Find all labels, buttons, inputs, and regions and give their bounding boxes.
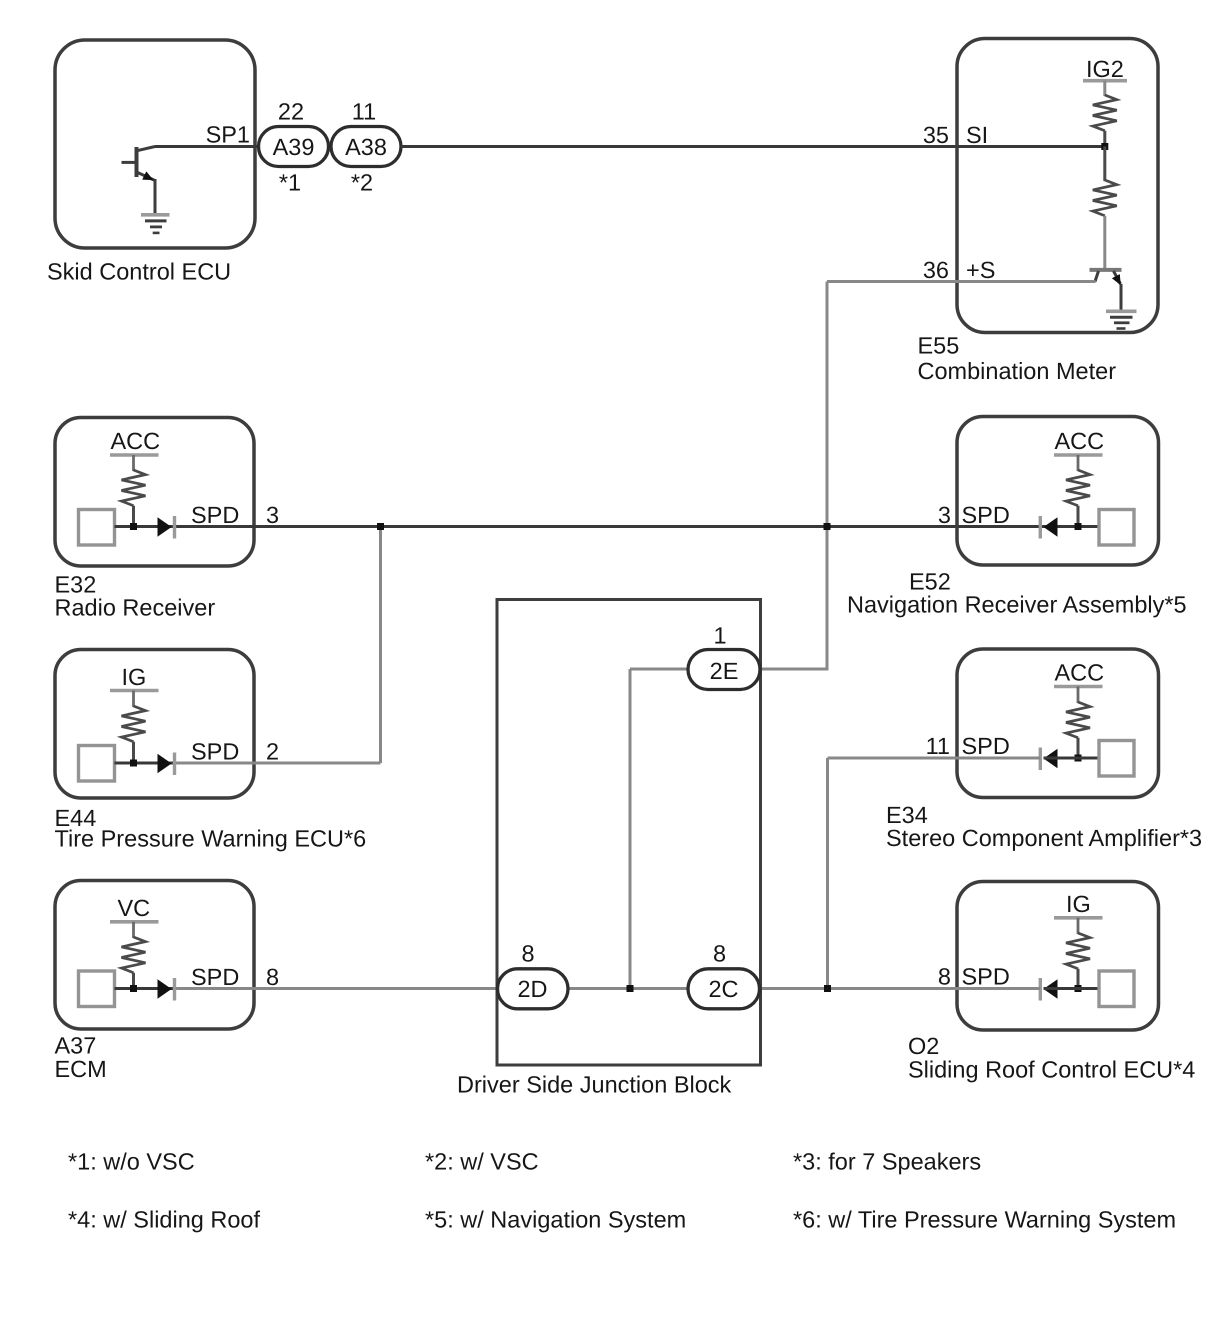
svg-text:*5: w/ Navigation System: *5: w/ Navigation System [425,1207,686,1233]
svg-text:*2: *2 [351,170,373,196]
svg-text:SPD: SPD [191,502,239,528]
svg-text:2E: 2E [710,658,739,684]
svg-text:+S: +S [966,257,995,283]
svg-text:Driver Side Junction Block: Driver Side Junction Block [457,1072,732,1098]
terminal square (E32) [79,510,115,546]
power tap ACC (E32) [110,428,160,471]
power tap ACC (E52) [1054,428,1104,471]
svg-text:2C: 2C [708,976,738,1002]
svg-text:*1: w/o VSC: *1: w/o VSC [68,1149,195,1175]
resistor R7 (A37) [122,937,146,989]
wire 2D to 2C internal [567,987,689,990]
resistor R8 (O2) [1066,933,1090,989]
wire R2 to Q2 [1103,216,1106,269]
box E55 Combination Meter [918,39,1159,385]
svg-text:8: 8 [266,964,279,990]
svg-text:1: 1 [713,623,726,649]
svg-text:SPD: SPD [962,733,1010,759]
power tap IG (E44) [110,664,159,707]
resistor R1 [1093,95,1117,148]
ground G2 [1106,311,1137,328]
wire A38 to E55 pin 35 [401,145,1105,148]
svg-text:A37: A37 [55,1033,97,1059]
node dot resistor E52 [1075,523,1082,530]
svg-text:Sliding Roof Control ECU*4: Sliding Roof Control ECU*4 [908,1057,1195,1083]
svg-text:A39: A39 [273,134,315,160]
transistor Q1 [122,147,156,215]
pin 35 SI [923,122,988,148]
connector 2E pin 1 [688,623,760,690]
svg-text:IG: IG [122,664,147,690]
power tap IG2 [1083,56,1127,96]
pin 2 SPD (E44) [191,739,279,765]
connector 2D pin 8 [498,941,569,1009]
terminal square (A37) [79,971,115,1007]
svg-text:36: 36 [923,257,949,283]
svg-text:Radio Receiver: Radio Receiver [55,595,216,621]
svg-text:IG2: IG2 [1086,56,1124,82]
power tap VC (A37) [110,895,159,938]
pin 8 SPD (O2) [938,964,1010,990]
svg-text:ACC: ACC [1055,428,1105,454]
wire 2E internal to 2D-2C net [630,669,690,989]
wire diode to square (O2) [1044,987,1100,990]
power tap IG (O2) [1054,891,1103,934]
node B dot (E44 branch tee) [377,523,384,530]
connector A39 pin 22 [259,99,329,196]
wire E34 pin 11 to node C [828,758,1041,989]
note *5 [425,1207,686,1233]
svg-text:Navigation Receiver Assembly*5: Navigation Receiver Assembly*5 [847,592,1187,618]
wire square to diode (A37) [115,987,175,990]
node dot resistor E44 [130,760,137,767]
note *3 [793,1149,981,1175]
wire A37 pin 8 to 2D [176,987,498,990]
terminal square (O2) [1099,971,1134,1007]
box Driver Side Junction Block [457,600,761,1098]
box A37 ECM [55,881,255,1083]
resistor R4 (E52) [1066,470,1090,527]
wire SP1 to A39 [155,145,259,148]
svg-text:3: 3 [266,502,279,528]
svg-text:*6: w/ Tire Pressure Warning S: *6: w/ Tire Pressure Warning System [793,1207,1176,1233]
wire square to diode (E44) [115,762,175,765]
note *1 [68,1149,195,1175]
svg-text:SI: SI [966,122,988,148]
svg-text:2D: 2D [517,976,547,1002]
ground G1 [141,215,170,233]
resistor R3 (E32) [122,470,146,527]
pin 8 SPD (A37) [191,964,279,990]
box E34 Stereo Component Amplifier [886,649,1202,851]
node D dot (2E internal tee) [627,985,634,992]
svg-text:A38: A38 [345,134,387,160]
wire 2C to O2 pin 8 [758,987,1040,990]
transistor Q2 [1090,270,1122,311]
terminal square (E52) [1099,510,1134,546]
pin SP1 [206,122,250,148]
svg-text:*3: for 7 Speakers: *3: for 7 Speakers [793,1149,981,1175]
svg-text:*1: *1 [279,170,301,196]
box E44 Tire Pressure Warning ECU [55,650,367,852]
svg-text:2: 2 [266,739,279,765]
box E52 Navigation Receiver [847,417,1187,618]
svg-text:SPD: SPD [191,739,239,765]
node dot resistor A37 [130,985,137,992]
svg-text:E55: E55 [918,333,960,359]
svg-text:35: 35 [923,122,949,148]
pin 36 +S [923,257,996,283]
note *4 [68,1207,260,1233]
box O2 Sliding Roof Control ECU [908,882,1195,1083]
pin 3 SPD (E32) [191,502,279,528]
resistor R6 (E34) [1066,702,1090,758]
svg-text:IG: IG [1066,891,1091,917]
node SI junction [1101,143,1108,150]
node C dot (E34 branch tee) [824,985,831,992]
svg-text:Combination Meter: Combination Meter [918,358,1117,384]
connector 2C pin 8 [688,941,760,1009]
terminal square (E44) [79,746,115,782]
svg-text:SPD: SPD [962,964,1010,990]
diode D5 (A37) [158,978,175,1001]
node dot resistor O2 [1075,985,1082,992]
wire SPD net E32 to E52 pin 3 [115,525,1100,528]
svg-text:8: 8 [938,964,951,990]
pin 11 SPD (E34) [926,733,1010,759]
svg-text:3: 3 [938,502,951,528]
svg-text:O2: O2 [908,1033,939,1059]
svg-text:SPD: SPD [962,502,1010,528]
node A dot (+S net crosses SPD net) [824,523,831,530]
svg-text:Tire Pressure Warning ECU*6: Tire Pressure Warning ECU*6 [55,826,367,852]
svg-text:Skid Control ECU: Skid Control ECU [47,259,231,285]
svg-text:ACC: ACC [111,428,161,454]
node dot resistor E34 [1075,755,1082,762]
box E32 Radio Receiver [55,418,255,621]
svg-text:ACC: ACC [1055,660,1105,686]
note *2 [425,1149,539,1175]
diode D4 (E34) [1040,748,1057,771]
svg-text:8: 8 [521,941,534,967]
pin 3 SPD (E52) [938,502,1010,528]
diode D2 (E52) [1040,516,1057,539]
wire pin36 +S to node A [758,282,1096,671]
connector A38 pin 11 [331,99,401,196]
diode D1 (E32) [158,516,175,539]
resistor R5 (E44) [122,706,146,763]
svg-text:Stereo Component Amplifier*3: Stereo Component Amplifier*3 [886,825,1202,851]
svg-text:22: 22 [278,99,304,125]
svg-text:SPD: SPD [191,964,239,990]
power tap ACC (E34) [1054,660,1104,704]
svg-text:11: 11 [926,733,950,759]
wire diode to square (E34) [1044,757,1100,760]
wire E44 pin 2 to node B [176,527,381,764]
svg-text:11: 11 [352,99,376,125]
diode D6 (O2) [1040,978,1057,1001]
svg-text:*2: w/ VSC: *2: w/ VSC [425,1149,539,1175]
note *6 [793,1207,1176,1233]
svg-text:SP1: SP1 [206,122,250,148]
box Skid Control ECU [47,40,255,285]
resistor R2 [1093,147,1117,216]
node dot resistor E32 [130,523,137,530]
svg-text:8: 8 [713,941,726,967]
svg-text:VC: VC [118,895,151,921]
diode D3 (E44) [158,753,175,776]
svg-text:ECM: ECM [55,1056,107,1082]
svg-text:*4: w/ Sliding Roof: *4: w/ Sliding Roof [68,1207,260,1233]
terminal square (E34) [1099,741,1134,777]
